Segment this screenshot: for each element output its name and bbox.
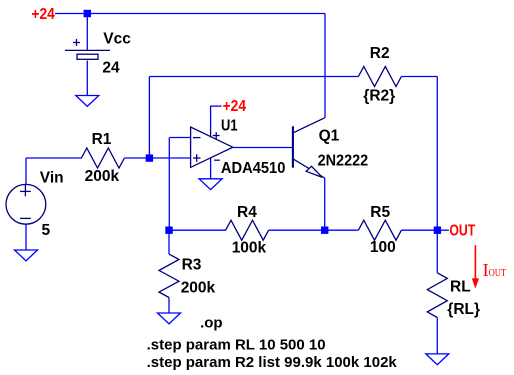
resistor R4: [226, 220, 269, 240]
junction top rail / Vcc: [84, 10, 91, 17]
wire Vin to R1: [26, 157, 82, 159]
wire OUT node down to RL: [436, 230, 438, 273]
current annotation arrow IOUT: [472, 245, 479, 288]
wire R3 node down to R3: [168, 230, 170, 254]
svg-text:2N2222: 2N2222: [318, 152, 369, 169]
ground (R3): [158, 313, 181, 324]
resistor R2: [358, 67, 401, 87]
wire R1 to op-amp + input: [124, 157, 190, 159]
op-amp U1: [191, 127, 233, 167]
svg-text:R4: R4: [237, 204, 257, 221]
wire feedback top to R2: [149, 76, 358, 78]
svg-text:+24: +24: [31, 6, 55, 23]
svg-text:R1: R1: [92, 131, 112, 148]
resistor RL: [427, 273, 447, 318]
ground (Vcc): [76, 96, 99, 107]
svg-text:OUT: OUT: [449, 223, 475, 240]
voltage source Vin (circle symbol): [6, 184, 46, 224]
wire RL to ground: [436, 318, 438, 354]
junction emitter / R4 / R5 node: [321, 227, 328, 234]
wire Vcc to ground: [86, 61, 88, 96]
wire R3 to ground: [168, 298, 170, 314]
wire op-amp V+ stub: [211, 105, 222, 107]
wire R5 to OUT node: [401, 229, 437, 231]
svg-text:100k: 100k: [232, 239, 267, 256]
resistor R5: [358, 220, 401, 240]
svg-text:.step param RL 10 500 10: .step param RL 10 500 10: [147, 337, 326, 354]
wire top rail +24: [55, 13, 325, 15]
svg-text:U1: U1: [221, 118, 238, 135]
wire inverting input down to R3 node: [168, 138, 170, 231]
junction OUT node: [434, 227, 441, 234]
wire Q1 emitter down: [324, 178, 326, 230]
wire rail down to Q1 collector: [324, 14, 326, 119]
resistor R3: [159, 254, 179, 297]
wire feedback node up: [148, 77, 150, 159]
svg-text:Q1: Q1: [319, 128, 340, 145]
transistor Q1: [293, 118, 325, 178]
svg-text:.step param R2 list 99.9k 100k: .step param R2 list 99.9k 100k 102k: [147, 354, 398, 371]
wire op-amp inverting input stub: [169, 137, 190, 139]
svg-text:{R2}: {R2}: [363, 87, 395, 104]
wire OUT node stub right: [437, 229, 449, 231]
ground (Vin): [15, 250, 38, 261]
ground (op-amp): [199, 179, 222, 190]
svg-text:.op: .op: [200, 314, 223, 331]
svg-text:ADA4510: ADA4510: [221, 160, 286, 177]
wire rail to Vcc battery: [86, 14, 88, 51]
ground (RL): [426, 354, 449, 365]
resistor R1: [81, 148, 124, 168]
wire R2 down to OUT: [436, 77, 438, 231]
wire Vin top vertical: [25, 158, 27, 184]
svg-text:5: 5: [42, 222, 51, 239]
svg-text:R5: R5: [370, 204, 390, 221]
wire node row left (R3 node to R4): [169, 229, 226, 231]
svg-text:Vcc: Vcc: [103, 30, 131, 47]
junction R1 / feedback node: [146, 154, 153, 161]
svg-text:{RL}: {RL}: [447, 301, 480, 318]
svg-text:100: 100: [370, 239, 396, 256]
svg-text:24: 24: [102, 59, 120, 76]
wire R4 to emitter node: [269, 229, 359, 231]
svg-text:Vin: Vin: [40, 169, 64, 186]
wire op-amp V+ up: [210, 106, 212, 129]
svg-text:R3: R3: [182, 257, 202, 274]
svg-text:RL: RL: [450, 278, 471, 295]
svg-text:+24: +24: [223, 98, 247, 115]
svg-text:200k: 200k: [85, 168, 120, 185]
wire R2 right: [401, 76, 437, 78]
svg-text:R2: R2: [370, 45, 390, 62]
svg-text:200k: 200k: [181, 280, 216, 297]
voltage source Vcc (battery symbol): [65, 39, 110, 59]
junction R3 / R4 node: [165, 227, 172, 234]
wire Vin bottom: [25, 224, 27, 250]
wire op-amp V- down: [210, 161, 212, 179]
wire op-amp output to Q1 base: [233, 147, 293, 149]
